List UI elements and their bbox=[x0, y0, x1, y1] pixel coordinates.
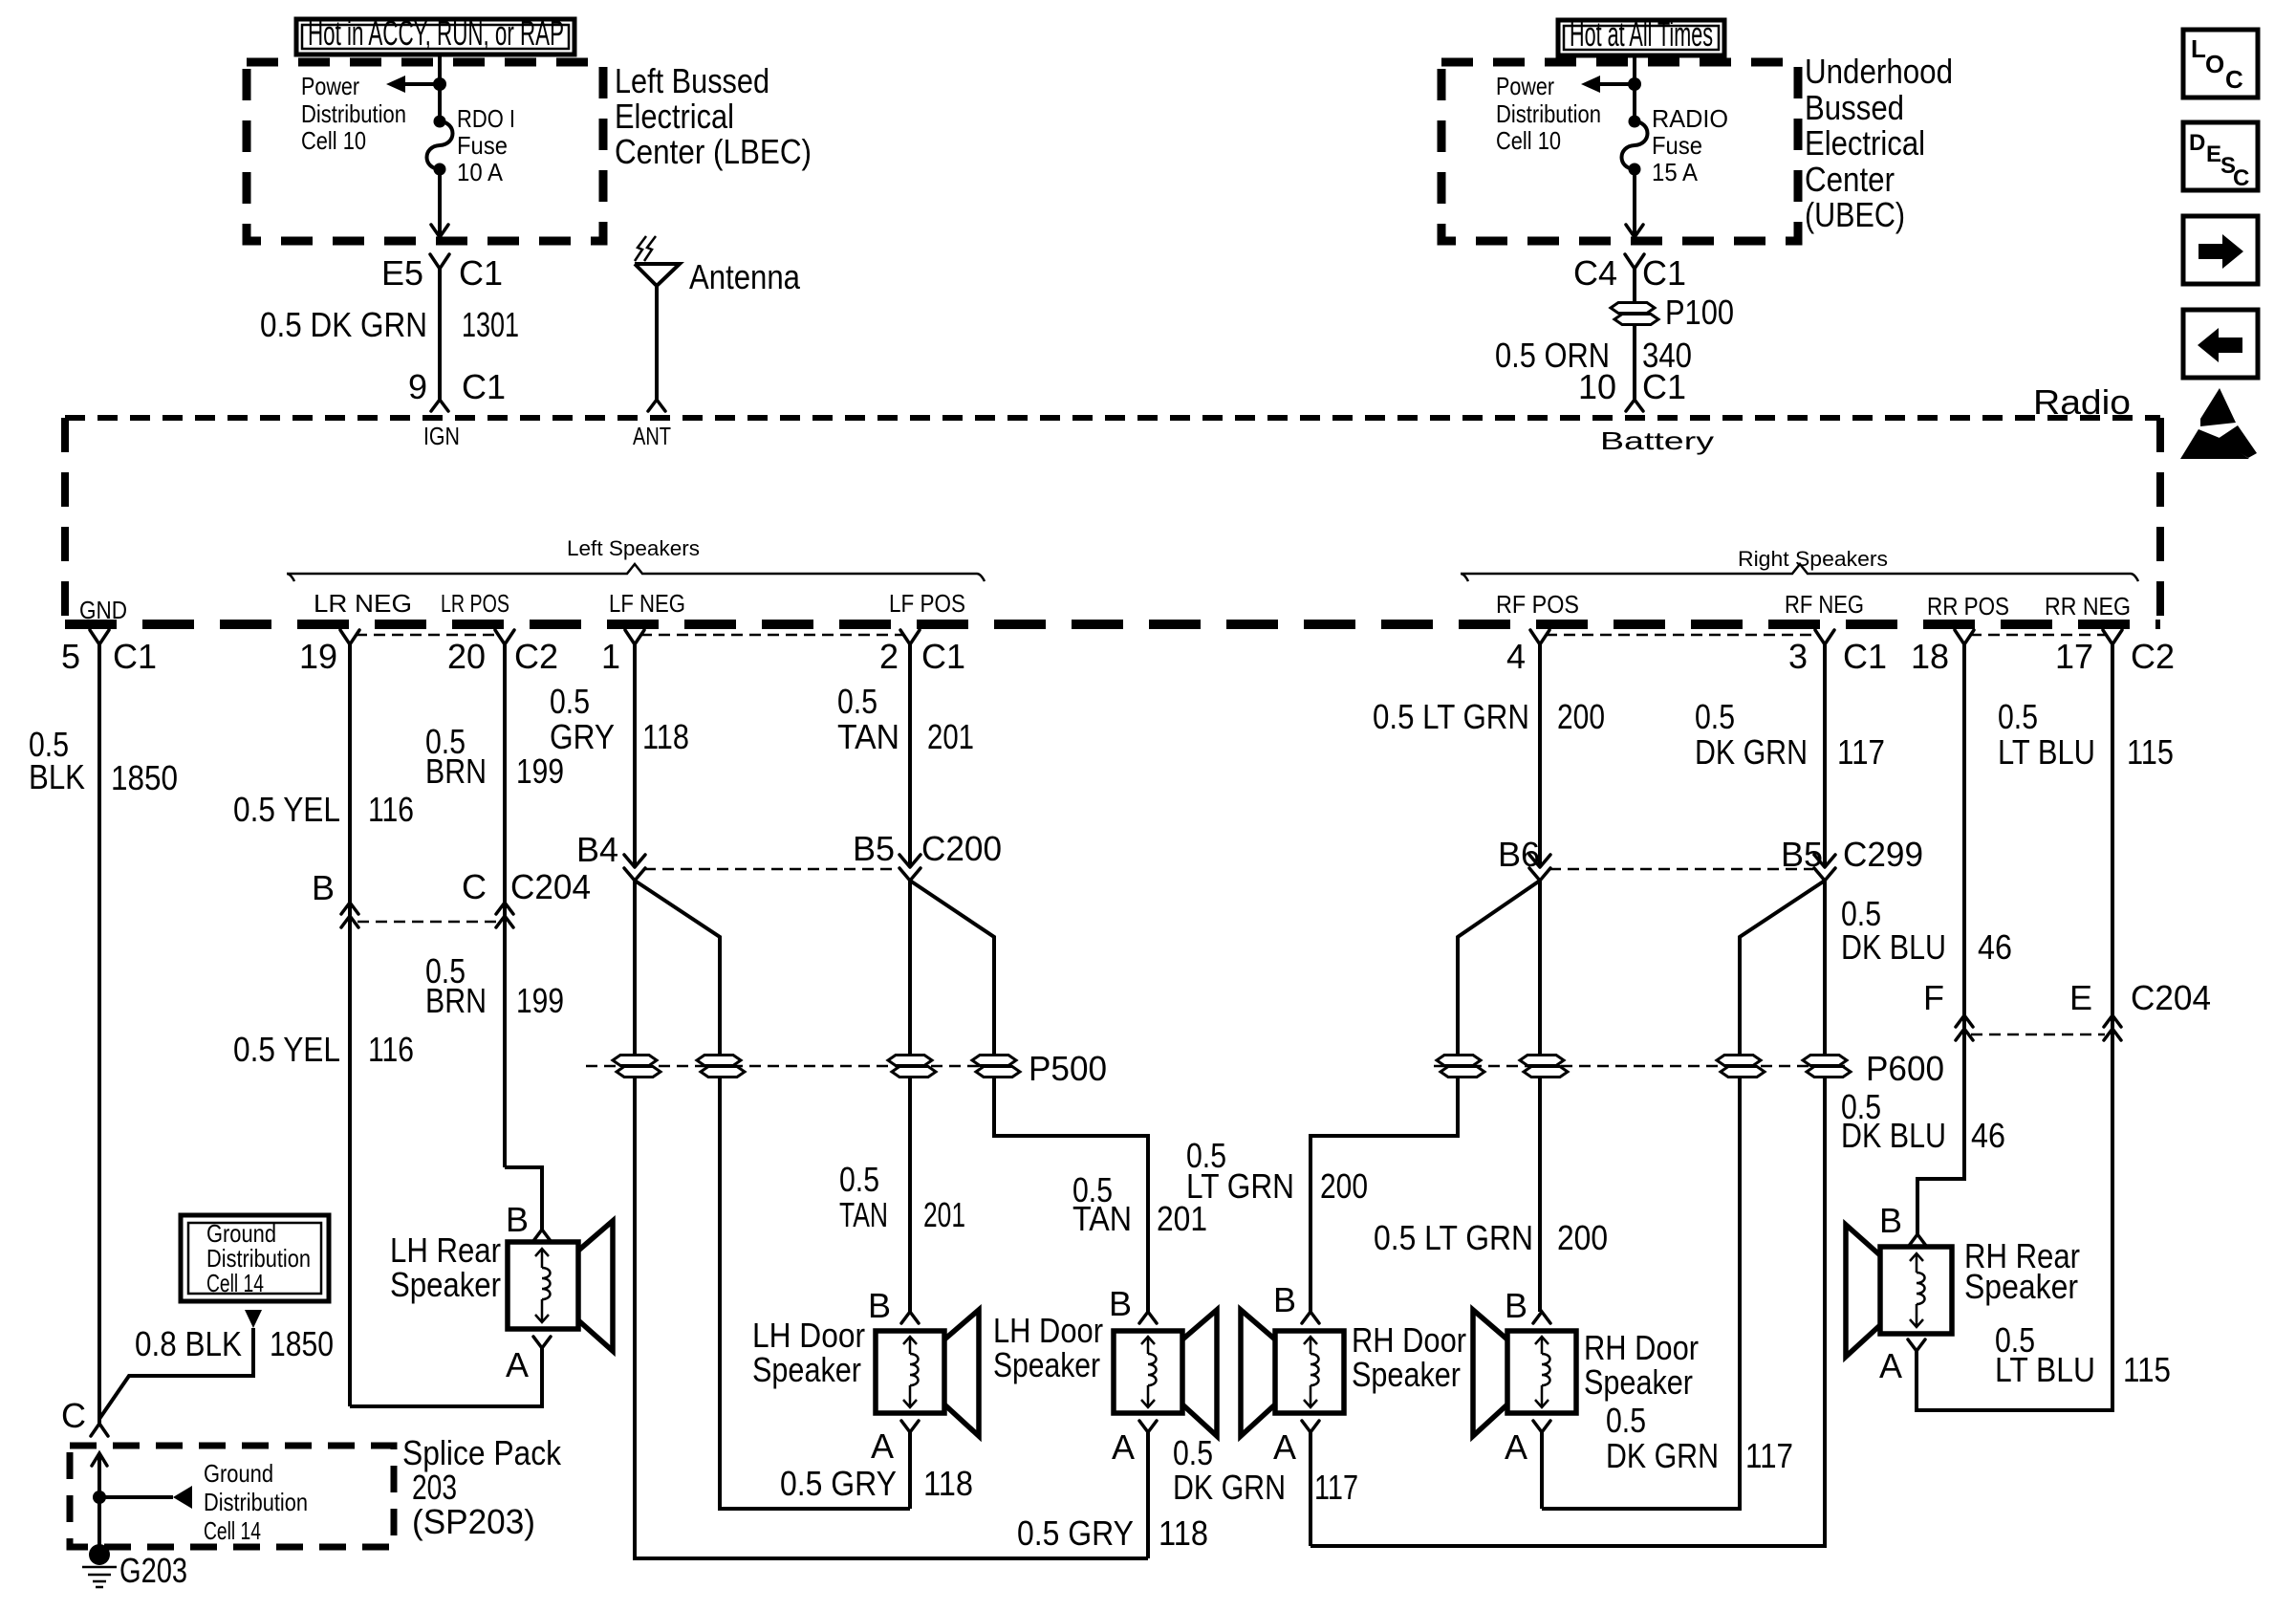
svg-text:117: 117 bbox=[1314, 1468, 1358, 1507]
svg-text:A: A bbox=[1273, 1427, 1296, 1467]
svg-text:B: B bbox=[1109, 1284, 1132, 1323]
svg-text:C1: C1 bbox=[921, 637, 965, 676]
wire: RF NEG continuation to RH door 1 A run bbox=[1310, 881, 1825, 1546]
svg-text:0.5 LT GRN: 0.5 LT GRN bbox=[1374, 1218, 1533, 1257]
svg-text:0.5 YEL: 0.5 YEL bbox=[233, 790, 340, 829]
svg-text:Speaker: Speaker bbox=[752, 1350, 861, 1389]
svg-text:RDO I: RDO I bbox=[457, 104, 515, 133]
connector C200 pin B4 bbox=[576, 830, 645, 881]
splice distribution arrow bbox=[99, 1486, 192, 1509]
svg-text:0.5 YEL: 0.5 YEL bbox=[233, 1030, 340, 1069]
node: UBEC feed junction bbox=[1628, 77, 1641, 91]
svg-text:LT GRN: LT GRN bbox=[1186, 1166, 1294, 1206]
wire: RR NEG 0.5 LT BLU 115 upper bbox=[1998, 644, 2174, 1015]
svg-text:5: 5 bbox=[61, 637, 80, 676]
wire: RF NEG 0.5 DK GRN 117 upper bbox=[1695, 644, 1885, 867]
wire: LR POS 0.5 BRN 199 upper bbox=[425, 644, 564, 1167]
splice pack SP203 dashed box bbox=[70, 1433, 562, 1547]
svg-text:P500: P500 bbox=[1029, 1049, 1107, 1088]
svg-text:3: 3 bbox=[1788, 637, 1808, 676]
svg-text:Speaker: Speaker bbox=[1352, 1355, 1461, 1394]
wire inside splice pack with arrowhead bbox=[92, 1453, 107, 1553]
svg-text:B: B bbox=[1273, 1280, 1296, 1319]
svg-text:Fuse: Fuse bbox=[457, 131, 508, 160]
wire: RR NEG to RH rear speaker A bbox=[1917, 1015, 2112, 1410]
connector C4 C1 bbox=[1573, 253, 1686, 293]
svg-text:A: A bbox=[871, 1426, 894, 1466]
node: LBEC feed junction bbox=[433, 77, 446, 91]
svg-text:LF NEG: LF NEG bbox=[609, 589, 685, 618]
svg-text:DK GRN: DK GRN bbox=[1173, 1468, 1286, 1507]
svg-text:B: B bbox=[1505, 1286, 1527, 1325]
dashed link B4-B5 (C200) bbox=[644, 868, 899, 871]
power label box: Hot at All Times bbox=[1558, 14, 1724, 55]
LH Rear Speaker bbox=[390, 1200, 613, 1384]
svg-text:C2: C2 bbox=[2131, 637, 2175, 676]
RH Door Speaker 1 bbox=[1241, 1280, 1466, 1467]
node: splice junction bbox=[93, 1491, 106, 1504]
wire label 0.5 LT BLU 115 lower bbox=[1995, 1320, 2171, 1389]
svg-text:203: 203 bbox=[412, 1468, 457, 1507]
svg-text:117: 117 bbox=[1837, 732, 1885, 772]
svg-text:2: 2 bbox=[879, 637, 899, 676]
svg-text:BRN: BRN bbox=[425, 981, 487, 1020]
svg-text:0.5: 0.5 bbox=[550, 682, 590, 721]
wire label 0.5 GRY 118 (door 1) bbox=[780, 1464, 973, 1503]
svg-text:B: B bbox=[312, 868, 335, 907]
svg-text:199: 199 bbox=[516, 751, 564, 791]
svg-text:TAN: TAN bbox=[1072, 1199, 1132, 1238]
svg-text:DK GRN: DK GRN bbox=[1606, 1436, 1719, 1475]
inline connector P600 bbox=[1434, 1049, 1944, 1088]
radio pin 1 LF NEG bbox=[601, 589, 685, 676]
svg-text:C2: C2 bbox=[514, 637, 558, 676]
svg-text:B: B bbox=[1879, 1201, 1902, 1240]
svg-text:200: 200 bbox=[1320, 1166, 1368, 1206]
svg-text:E: E bbox=[2206, 142, 2221, 167]
wire label 0.5 GRY 118 (door 2) bbox=[1017, 1513, 1208, 1553]
connector 9 C1 at radio IGN pin bbox=[408, 367, 506, 450]
legend box LOC bbox=[2183, 30, 2258, 98]
connector C204 pin F bbox=[1923, 978, 1973, 1040]
svg-text:B4: B4 bbox=[576, 830, 618, 869]
svg-text:200: 200 bbox=[1557, 1218, 1608, 1257]
svg-text:LT BLU: LT BLU bbox=[1995, 1350, 2095, 1389]
svg-text:L: L bbox=[2191, 34, 2206, 63]
svg-text:0.5: 0.5 bbox=[1173, 1433, 1213, 1472]
svg-text:Distribution: Distribution bbox=[301, 99, 406, 128]
svg-text:DK BLU: DK BLU bbox=[1841, 927, 1946, 967]
wire: LF NEG continuation to P500 and LH door 2 A run bbox=[635, 881, 1148, 1558]
svg-text:RF NEG: RF NEG bbox=[1785, 590, 1864, 619]
wire: RR POS upper segment bbox=[1962, 644, 1966, 1015]
svg-text:C204: C204 bbox=[510, 867, 591, 906]
svg-text:E: E bbox=[2069, 978, 2092, 1017]
svg-text:Cell 10: Cell 10 bbox=[301, 126, 366, 155]
svg-text:Right Speakers: Right Speakers bbox=[1738, 547, 1888, 571]
power label box: Hot in ACCY, RUN, or RAP bbox=[296, 13, 574, 54]
RH Rear Speaker bbox=[1846, 1201, 2080, 1385]
connector C299 pin B5 bbox=[1781, 835, 1923, 881]
svg-text:C1: C1 bbox=[462, 367, 506, 406]
wire: GND 0.5 BLK 1850 bbox=[29, 644, 178, 1424]
svg-text:Electrical: Electrical bbox=[615, 97, 734, 136]
svg-text:Fuse: Fuse bbox=[1652, 131, 1702, 160]
svg-text:Cell 14: Cell 14 bbox=[204, 1516, 261, 1545]
svg-text:GRY: GRY bbox=[550, 717, 615, 756]
svg-text:Distribution: Distribution bbox=[1496, 99, 1601, 128]
wire label 0.5 DK GRN 117 (door 2) bbox=[1606, 1401, 1793, 1475]
svg-text:C: C bbox=[2225, 65, 2243, 94]
fuse RADIO 15 A bbox=[1622, 104, 1729, 186]
svg-text:TAN: TAN bbox=[839, 1195, 888, 1234]
wire: RH door 2 A drop bbox=[1540, 1432, 1544, 1509]
svg-text:1850: 1850 bbox=[111, 758, 178, 797]
svg-text:(SP203): (SP203) bbox=[412, 1502, 535, 1541]
svg-text:C: C bbox=[61, 1396, 86, 1435]
svg-text:116: 116 bbox=[368, 1030, 414, 1069]
wire: RR POS to RH rear speaker B bbox=[1841, 1015, 2005, 1234]
power distribution arrow (UBEC) bbox=[1496, 72, 1635, 155]
svg-text:E5: E5 bbox=[381, 253, 423, 293]
inline connector P100 bbox=[1611, 293, 1734, 332]
LBEC box: Left Bussed Electrical Center bbox=[247, 61, 812, 241]
legend box DESC bbox=[2183, 122, 2258, 191]
svg-text:Antenna: Antenna bbox=[689, 257, 801, 296]
svg-text:RH Door: RH Door bbox=[1352, 1320, 1466, 1360]
svg-text:201: 201 bbox=[923, 1195, 965, 1234]
pin link dash 18-17 bbox=[1970, 634, 2107, 637]
connector 10 C1 at radio Battery pin bbox=[1578, 367, 1714, 455]
svg-text:115: 115 bbox=[2127, 732, 2174, 772]
svg-text:LR NEG: LR NEG bbox=[314, 589, 412, 618]
svg-text:C204: C204 bbox=[2131, 978, 2211, 1017]
wire: LR NEG run to LH rear speaker A bbox=[350, 1348, 542, 1406]
wire label 0.5 LT GRN 200 mid branch bbox=[1186, 1136, 1368, 1206]
svg-text:GND: GND bbox=[79, 596, 127, 624]
svg-text:LH Rear: LH Rear bbox=[390, 1230, 501, 1270]
svg-text:C4: C4 bbox=[1573, 253, 1617, 293]
svg-text:C1: C1 bbox=[1642, 367, 1686, 406]
svg-text:C1: C1 bbox=[1642, 253, 1686, 293]
wire: fuse to LBEC edge with arrowhead bbox=[431, 169, 448, 237]
wire: 0.8 BLK 1850 to splice bbox=[99, 1324, 334, 1419]
svg-text:18: 18 bbox=[1911, 637, 1949, 676]
radio pin GND bbox=[61, 596, 157, 676]
svg-text:200: 200 bbox=[1557, 697, 1605, 736]
svg-text:Cell 10: Cell 10 bbox=[1496, 126, 1561, 155]
svg-text:Electrical: Electrical bbox=[1805, 123, 1925, 163]
radio pin 18 RR POS bbox=[1911, 592, 2009, 676]
svg-text:C: C bbox=[2233, 165, 2249, 191]
svg-text:DK BLU: DK BLU bbox=[1841, 1116, 1946, 1155]
wire: RF POS 0.5 LT GRN 200 upper bbox=[1373, 644, 1605, 867]
wire: LF NEG branch diagonal to door harness bbox=[635, 881, 910, 1509]
svg-text:B: B bbox=[506, 1200, 529, 1239]
antenna bbox=[635, 236, 801, 400]
wire: Hot feed into UBEC bbox=[1633, 55, 1636, 121]
wire: RH door 1 A drop bbox=[1309, 1432, 1312, 1546]
svg-text:F: F bbox=[1923, 978, 1944, 1017]
svg-text:20: 20 bbox=[447, 637, 486, 676]
svg-text:1301: 1301 bbox=[462, 305, 519, 344]
svg-text:C1: C1 bbox=[459, 253, 503, 293]
radio pin 19 LR NEG bbox=[299, 589, 412, 676]
svg-text:Bussed: Bussed bbox=[1805, 88, 1904, 127]
svg-text:(UBEC): (UBEC) bbox=[1805, 195, 1905, 234]
svg-text:15 A: 15 A bbox=[1652, 158, 1699, 186]
svg-text:Speaker: Speaker bbox=[390, 1265, 501, 1304]
ground distribution callout box (upper) bbox=[181, 1215, 329, 1301]
wire: RF POS continuation to RH door speaker 2 B bbox=[1538, 881, 1542, 1312]
svg-text:0.5 LT GRN: 0.5 LT GRN bbox=[1373, 697, 1529, 736]
LH Door Speaker 1 bbox=[752, 1286, 979, 1466]
svg-text:Power: Power bbox=[1496, 72, 1554, 100]
svg-text:116: 116 bbox=[368, 790, 414, 829]
connector C204 pin B bbox=[312, 868, 358, 927]
arrow from ground distribution box bbox=[245, 1310, 262, 1328]
pin link dash 1-2 bbox=[640, 634, 904, 637]
svg-text:118: 118 bbox=[1159, 1513, 1208, 1553]
svg-text:199: 199 bbox=[516, 981, 564, 1020]
wire 1301 0.5 DK GRN bbox=[260, 269, 519, 400]
svg-text:0.5: 0.5 bbox=[1998, 697, 2038, 736]
svg-text:TAN: TAN bbox=[837, 717, 899, 756]
svg-text:Center: Center bbox=[1805, 160, 1895, 199]
svg-text:RF POS: RF POS bbox=[1496, 590, 1579, 619]
wire label 0.5 YEL 116 lower bbox=[233, 1030, 414, 1069]
svg-text:Hot at All Times: Hot at All Times bbox=[1570, 14, 1713, 54]
brace: Left Speakers bbox=[287, 536, 985, 581]
svg-text:Ground: Ground bbox=[204, 1459, 273, 1488]
svg-text:Speaker: Speaker bbox=[1584, 1362, 1693, 1402]
svg-text:0.5: 0.5 bbox=[1606, 1401, 1646, 1440]
wire: LR POS jog to LH rear speaker B bbox=[505, 1167, 542, 1231]
wire: LH door 2 A drop bbox=[1146, 1432, 1150, 1558]
wire label 0.5 TAN 201 mid bbox=[839, 1160, 965, 1234]
inline connector P500 bbox=[586, 1049, 1107, 1088]
connector C204 pin E bbox=[2069, 978, 2211, 1040]
svg-text:LH Door: LH Door bbox=[752, 1316, 865, 1355]
legend box right arrow bbox=[2183, 216, 2258, 284]
svg-text:Power: Power bbox=[301, 72, 359, 100]
svg-text:C299: C299 bbox=[1843, 835, 1923, 874]
svg-text:C: C bbox=[462, 867, 487, 906]
svg-text:G203: G203 bbox=[119, 1551, 187, 1590]
svg-text:A: A bbox=[506, 1345, 529, 1384]
svg-text:10: 10 bbox=[1578, 367, 1616, 406]
svg-text:4: 4 bbox=[1506, 637, 1526, 676]
radio pin 20 LR POS bbox=[441, 589, 558, 676]
svg-text:Underhood: Underhood bbox=[1805, 52, 1953, 91]
svg-text:117: 117 bbox=[1745, 1436, 1793, 1475]
radio ANT pin bbox=[633, 400, 671, 450]
svg-text:10 A: 10 A bbox=[457, 158, 504, 186]
fuse RDO I 10 A bbox=[427, 104, 516, 186]
svg-text:Speaker: Speaker bbox=[993, 1345, 1100, 1384]
wire: LR NEG 0.5 YEL 116 upper bbox=[233, 644, 414, 1406]
svg-text:LH Door: LH Door bbox=[993, 1311, 1103, 1350]
svg-text:ANT: ANT bbox=[633, 422, 671, 450]
svg-text:0.5: 0.5 bbox=[1695, 697, 1735, 736]
pin link dash 4-3 bbox=[1546, 634, 1819, 637]
svg-text:19: 19 bbox=[299, 637, 337, 676]
wire: LF POS continuation to LH door speaker 1 B bbox=[908, 881, 912, 1312]
ESD sensitive symbol bbox=[2180, 388, 2257, 459]
svg-text:P600: P600 bbox=[1866, 1049, 1944, 1088]
dashed link B6-B5 (C299) bbox=[1549, 868, 1813, 871]
dashed link F-E (C204) bbox=[1971, 1034, 2105, 1036]
svg-text:Speaker: Speaker bbox=[1964, 1267, 2078, 1306]
radio pin 3 RF NEG bbox=[1785, 590, 1887, 676]
wire: Hot feed into LBEC bbox=[438, 54, 442, 121]
svg-text:A: A bbox=[1879, 1346, 1902, 1385]
svg-text:Splice Pack: Splice Pack bbox=[402, 1433, 562, 1472]
power distribution arrow (LBEC) bbox=[301, 72, 440, 155]
svg-text:118: 118 bbox=[642, 717, 689, 756]
wire: RR POS 0.5 DK BLU 46 upper label bbox=[1841, 894, 2012, 967]
radio box dashed outline bbox=[65, 418, 2160, 624]
svg-text:BRN: BRN bbox=[425, 751, 487, 791]
wire label 0.5 ORN 340 bbox=[1495, 336, 1692, 375]
svg-text:IGN: IGN bbox=[423, 422, 460, 450]
svg-text:P100: P100 bbox=[1665, 293, 1734, 332]
svg-text:9: 9 bbox=[408, 367, 427, 406]
svg-text:B5: B5 bbox=[853, 829, 895, 868]
svg-text:RH Door: RH Door bbox=[1584, 1328, 1699, 1367]
svg-text:LF POS: LF POS bbox=[889, 589, 965, 618]
wire 340 0.5 ORN upper segment bbox=[1633, 269, 1636, 400]
svg-text:RR POS: RR POS bbox=[1927, 592, 2009, 620]
wire: LH door 1 A drop bbox=[908, 1432, 912, 1509]
svg-text:Battery: Battery bbox=[1600, 426, 1714, 455]
svg-text:201: 201 bbox=[927, 717, 974, 756]
svg-text:Left Speakers: Left Speakers bbox=[567, 536, 700, 560]
wire label 0.5 TAN 201 right branch bbox=[1072, 1170, 1207, 1238]
radio pin 17 RR NEG bbox=[2045, 592, 2175, 676]
svg-text:Distribution: Distribution bbox=[204, 1488, 308, 1516]
svg-text:A: A bbox=[1112, 1427, 1135, 1467]
svg-text:C1: C1 bbox=[113, 637, 157, 676]
svg-text:BLK: BLK bbox=[29, 757, 85, 796]
connector C204 pin C bbox=[462, 867, 591, 927]
svg-text:C1: C1 bbox=[1843, 637, 1887, 676]
svg-text:RR NEG: RR NEG bbox=[2045, 592, 2131, 620]
legend box left arrow bbox=[2183, 310, 2258, 378]
svg-text:46: 46 bbox=[1978, 927, 2012, 967]
wire: LF NEG 0.5 GRY 118 upper bbox=[550, 644, 689, 867]
ground G203 bbox=[82, 1544, 187, 1590]
svg-text:Cell 14: Cell 14 bbox=[206, 1269, 264, 1297]
svg-text:46: 46 bbox=[1971, 1116, 2005, 1155]
wire: LF POS branch diagonal bbox=[910, 881, 1148, 1312]
svg-text:0.5 DK GRN: 0.5 DK GRN bbox=[260, 305, 427, 344]
wire: RF NEG branch diagonal to RH door 2 A run bbox=[1542, 881, 1825, 1509]
svg-text:0.5 GRY: 0.5 GRY bbox=[780, 1464, 897, 1503]
connector C200 pin B5 bbox=[853, 829, 1002, 881]
svg-text:D: D bbox=[2189, 130, 2205, 156]
svg-text:Center (LBEC): Center (LBEC) bbox=[615, 132, 812, 171]
svg-text:0.5 GRY: 0.5 GRY bbox=[1017, 1513, 1134, 1553]
wire: RF POS branch diagonal to RH door speaker 1 B bbox=[1310, 881, 1540, 1312]
svg-text:Left Bussed: Left Bussed bbox=[615, 61, 769, 100]
svg-text:1850: 1850 bbox=[270, 1324, 334, 1363]
wire: LF POS 0.5 TAN 201 upper bbox=[837, 644, 974, 867]
wire label 0.5 LT GRN 200 lower bbox=[1374, 1218, 1608, 1257]
radio pin 2 LF POS bbox=[879, 589, 965, 676]
dashed link B-C (C204) bbox=[357, 921, 497, 924]
svg-text:B6: B6 bbox=[1498, 835, 1540, 874]
svg-text:Hot in ACCY, RUN, or RAP: Hot in ACCY, RUN, or RAP bbox=[308, 13, 564, 53]
svg-text:A: A bbox=[1505, 1427, 1527, 1467]
svg-text:O: O bbox=[2205, 50, 2224, 78]
svg-text:118: 118 bbox=[923, 1464, 973, 1503]
svg-text:115: 115 bbox=[2123, 1350, 2171, 1389]
svg-text:LT BLU: LT BLU bbox=[1998, 732, 2095, 772]
brace: Right Speakers bbox=[1461, 547, 2138, 581]
pin link dash 19-20 bbox=[356, 634, 499, 637]
svg-text:1: 1 bbox=[601, 637, 620, 676]
connector C299 pin B6 bbox=[1498, 835, 1550, 881]
svg-text:DK GRN: DK GRN bbox=[1695, 732, 1808, 772]
connector E5 C1 bbox=[381, 253, 503, 293]
UBEC box: Underhood Bussed Electrical Center bbox=[1441, 52, 1953, 241]
svg-text:0.5: 0.5 bbox=[839, 1160, 879, 1199]
svg-text:B: B bbox=[868, 1286, 891, 1325]
svg-text:17: 17 bbox=[2055, 637, 2093, 676]
svg-text:0.8 BLK: 0.8 BLK bbox=[135, 1324, 242, 1363]
RH Door Speaker 2 bbox=[1473, 1286, 1699, 1467]
radio pin 4 RF POS bbox=[1496, 590, 1579, 676]
wire label 0.5 BRN 199 lower bbox=[425, 951, 564, 1020]
connector C at splice pack bbox=[61, 1396, 108, 1436]
LH Door Speaker 2 bbox=[993, 1284, 1217, 1467]
svg-text:RADIO: RADIO bbox=[1652, 104, 1728, 133]
wire: fuse to UBEC edge with arrowhead bbox=[1626, 169, 1643, 237]
svg-text:LR POS: LR POS bbox=[441, 589, 509, 618]
wire label 0.5 DK GRN 117 (door 1) bbox=[1173, 1433, 1358, 1507]
svg-text:C200: C200 bbox=[921, 829, 1002, 868]
svg-text:0.5: 0.5 bbox=[837, 682, 877, 721]
